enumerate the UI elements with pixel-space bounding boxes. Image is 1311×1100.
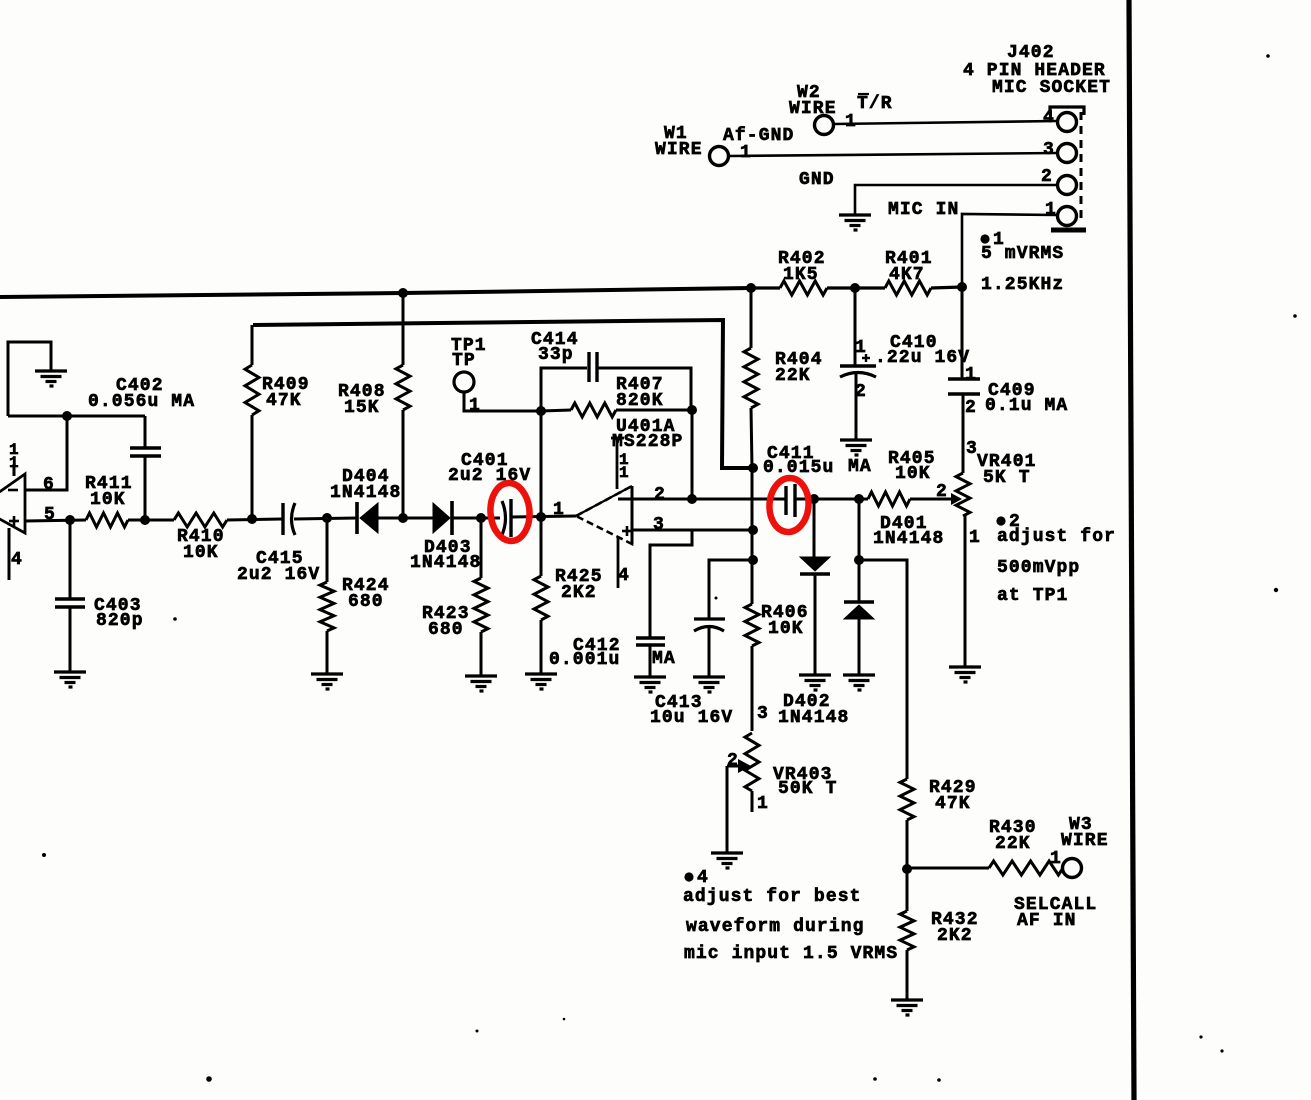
svg-text:2: 2 — [965, 398, 977, 418]
wire R404 lower lead — [751, 408, 752, 468]
wire D401 lower lead — [858, 560, 861, 675]
label 0.056u MA — [88, 392, 195, 412]
label 1N4148 D402 — [778, 708, 849, 728]
wire VR403 wiper to ground — [726, 766, 729, 852]
label 0.001u — [549, 650, 620, 670]
op-amp U401A body — [576, 486, 632, 544]
svg-text:1: 1 — [469, 396, 481, 416]
wire C402 upper lead — [144, 416, 147, 448]
pin label W2-1 — [845, 112, 857, 132]
label R410 — [177, 527, 225, 547]
label WIRE W1 — [655, 140, 703, 160]
wire C413 upper lead — [709, 560, 753, 619]
wire R408 upper lead — [402, 293, 405, 365]
diode D402 — [800, 557, 830, 574]
op-amp U401A pin8 mark — [619, 451, 630, 482]
svg-text:3: 3 — [1043, 140, 1055, 160]
wire pin1 to feedback — [540, 411, 543, 517]
pot VR401 — [956, 473, 970, 516]
label R409 — [262, 375, 310, 395]
svg-text:0.056u MA: 0.056u MA — [88, 392, 195, 412]
resistor R402 — [780, 281, 827, 295]
wire R408 lower lead — [402, 410, 405, 518]
ground R432 — [891, 1000, 923, 1015]
resistor R406 — [745, 604, 759, 646]
svg-text:1: 1 — [553, 500, 565, 520]
pin label U401A-3 — [653, 515, 665, 535]
ground top-left — [35, 371, 67, 386]
label R430 — [989, 818, 1037, 838]
wire W1 to pin3 — [729, 153, 1057, 156]
node C402-R410 junction — [140, 515, 150, 525]
pin label VR401-2 — [936, 482, 948, 502]
label C401 — [461, 451, 509, 471]
svg-text:47K: 47K — [935, 794, 971, 814]
svg-text:4: 4 — [618, 566, 630, 586]
svg-text:10u 16V: 10u 16V — [650, 708, 733, 728]
label R401 — [885, 249, 933, 269]
capacitor C410 — [840, 366, 876, 377]
label R402 — [778, 249, 826, 269]
wire R409 lower lead — [251, 415, 254, 519]
label SELCALL — [1014, 895, 1097, 915]
connector J402 bracket top — [1050, 107, 1084, 115]
terminal W1 circle — [710, 147, 729, 166]
label WIRE W3 — [1061, 831, 1109, 851]
node D402 junction — [809, 494, 819, 504]
svg-text:5: 5 — [44, 505, 56, 525]
wire C414 right branch — [597, 368, 691, 410]
op-amp U401B body — [0, 474, 25, 533]
svg-text:10K: 10K — [90, 490, 126, 510]
label C414 — [531, 330, 579, 350]
capacitor C413 — [694, 619, 725, 631]
svg-text:500mVpp: 500mVpp — [997, 558, 1080, 578]
connector J402 pin4 circle — [1058, 113, 1077, 132]
svg-text:10K: 10K — [183, 543, 219, 563]
svg-text:2: 2 — [1009, 512, 1021, 532]
op-amp U401A pin4 stub — [617, 538, 620, 588]
resistor R424 — [320, 582, 334, 631]
label 10u 16V — [650, 708, 733, 728]
terminal W3 circle — [1063, 859, 1082, 878]
label 2K2 R432 — [937, 926, 973, 946]
wire C412 branch — [650, 531, 692, 638]
diode D404 — [357, 502, 378, 534]
label U401A — [616, 417, 676, 437]
label GND — [799, 170, 835, 190]
label 1.25KHz — [981, 275, 1064, 295]
wire pin6 top branch — [8, 415, 145, 418]
svg-text:1: 1 — [965, 365, 977, 385]
resistor R404 — [744, 348, 758, 408]
wire C415 to D404 — [294, 518, 357, 519]
label VR401 — [977, 452, 1037, 472]
node rail-MICIN junction — [957, 282, 967, 292]
node R423 junction — [476, 513, 486, 523]
wire R405 to VR401 wiper — [910, 498, 941, 501]
label .22u 16V — [875, 348, 970, 368]
svg-text:MA: MA — [848, 457, 872, 477]
svg-text:680: 680 — [428, 620, 464, 640]
svg-text:MIC IN: MIC IN — [888, 200, 959, 220]
node pin1 junction — [536, 512, 546, 522]
wire mid vertical — [751, 468, 754, 530]
label 50K T — [778, 779, 838, 799]
capacitor C402 — [130, 448, 161, 456]
wire C409 lower lead — [962, 394, 965, 473]
pin label W3-1 — [1050, 849, 1062, 869]
pin label U401B-5 — [44, 505, 56, 525]
svg-text:22K: 22K — [775, 366, 811, 386]
label 2u2 16V C401 — [448, 466, 531, 486]
svg-text:adjust for best: adjust for best — [683, 887, 862, 907]
label R429 — [929, 778, 977, 798]
label D401 — [880, 514, 928, 534]
svg-text:2K2: 2K2 — [937, 926, 973, 946]
wire feedback to pin2 — [691, 410, 694, 499]
svg-text:TP: TP — [452, 351, 476, 371]
wire rail R401 right segment — [931, 287, 962, 288]
node rail-R408 junction — [398, 288, 408, 298]
resistor R409 — [245, 365, 259, 415]
label T/R — [857, 94, 893, 114]
label 820K — [616, 391, 664, 411]
wire R406 upper lead — [751, 560, 754, 604]
wire TP1 stem — [464, 392, 541, 411]
label C403 — [94, 596, 142, 616]
svg-text:GND: GND — [799, 170, 835, 190]
label WIRE W2 — [789, 99, 837, 119]
label 1N4148 D401 — [873, 529, 944, 549]
svg-text:WIRE: WIRE — [789, 99, 837, 119]
wire W2 to pin4 — [834, 121, 1057, 124]
label 47K R429 — [935, 794, 971, 814]
label C415 — [256, 549, 304, 569]
pin label C409-2 — [965, 398, 977, 418]
svg-text:1: 1 — [855, 338, 867, 358]
svg-text:2: 2 — [727, 751, 739, 771]
label D403 — [424, 538, 472, 558]
label 10K R406 — [768, 619, 804, 639]
svg-text:2: 2 — [936, 482, 948, 502]
wire VR401 lower lead — [964, 516, 967, 667]
test point TP1 circle — [454, 372, 474, 392]
wire rail R402-R401 segment — [827, 286, 885, 289]
wire C403 upper lead — [69, 520, 72, 599]
pin label TP-1 — [469, 396, 481, 416]
label Af-GND — [723, 126, 794, 146]
svg-text:1: 1 — [757, 794, 769, 814]
svg-text:1.25KHz: 1.25KHz — [981, 275, 1064, 295]
resistor R425 — [534, 576, 548, 620]
connector J402 pin2 circle — [1058, 176, 1077, 195]
svg-text:2: 2 — [855, 382, 867, 402]
label 5K T — [983, 468, 1031, 488]
svg-text:3: 3 — [653, 515, 665, 535]
pin label U401A-4 — [618, 566, 630, 586]
ground R424 — [311, 674, 343, 689]
label T/R overline — [858, 93, 869, 95]
wire op-amp pin2 line — [618, 498, 786, 501]
wire R424 upper lead — [326, 518, 329, 582]
svg-text:WIRE: WIRE — [1061, 831, 1109, 851]
svg-text:2u2 16V: 2u2 16V — [237, 565, 320, 585]
svg-text:at TP1: at TP1 — [997, 586, 1068, 606]
pot VR401 wiper arrow — [941, 493, 962, 505]
op-amp U401B pin4 stub — [8, 528, 11, 580]
svg-text:5K T: 5K T — [983, 468, 1031, 488]
node pin3 junction — [748, 525, 758, 535]
ground C413 — [693, 677, 725, 692]
label 1N4148 D404 — [330, 483, 401, 503]
ground connector GND — [839, 215, 871, 230]
wire R432 lower lead — [906, 950, 909, 1000]
wire branch to R429 — [859, 560, 907, 779]
wire rail R402 left segment — [751, 286, 780, 289]
ground C410 — [840, 440, 872, 455]
label MA C411 — [848, 457, 872, 477]
op-amp U401B minus — [8, 489, 18, 492]
resistor R410 — [174, 513, 227, 527]
label adjust for best — [683, 887, 862, 907]
svg-text:1: 1 — [9, 454, 20, 472]
pin label VR403-2 — [727, 751, 739, 771]
svg-text:1: 1 — [969, 528, 981, 548]
label VR403 — [773, 765, 833, 785]
svg-text:820p: 820p — [96, 611, 144, 631]
svg-text:Af-GND: Af-GND — [723, 126, 794, 146]
node D401 junction — [854, 494, 864, 504]
svg-text:0.015u: 0.015u — [763, 458, 834, 478]
ground D401 — [843, 675, 875, 690]
pin label C409-3 — [966, 439, 978, 459]
diode D401 — [844, 602, 874, 619]
svg-text:22K: 22K — [995, 834, 1031, 854]
svg-text:6: 6 — [43, 475, 55, 495]
wire R430 left lead — [907, 867, 989, 870]
svg-text:33p: 33p — [538, 345, 574, 365]
wire R424 lower lead — [326, 631, 329, 674]
svg-text:10K: 10K — [895, 464, 931, 484]
label 500mVpp — [997, 558, 1080, 578]
wire C409 upper lead — [961, 287, 964, 379]
pin label U401A-1 — [553, 500, 565, 520]
ground VR401 — [949, 667, 981, 682]
label R404 — [775, 350, 823, 370]
resistor R429 — [900, 779, 914, 820]
wire C410 upper lead — [854, 288, 857, 366]
svg-text:2: 2 — [654, 485, 666, 505]
capacitor C412 — [636, 638, 665, 645]
label 22K — [775, 366, 811, 386]
node feedback right junction — [687, 405, 697, 415]
pin label W1-1 — [740, 143, 752, 163]
wire R429 lower lead — [906, 820, 909, 869]
svg-text:15K: 15K — [344, 398, 380, 418]
wire op-amp pin3 line — [632, 529, 753, 532]
svg-text:1: 1 — [619, 464, 630, 482]
node C413 junction — [748, 555, 758, 565]
node upper-loop junction — [748, 463, 758, 473]
label C413 — [655, 693, 703, 713]
capacitor C409 — [948, 379, 980, 394]
svg-text:1: 1 — [1050, 849, 1062, 869]
label waveform during — [686, 917, 865, 937]
node C403 junction — [65, 515, 75, 525]
svg-text:MA: MA — [652, 649, 676, 669]
label TP1 — [451, 336, 487, 356]
note #2 marker — [996, 512, 1021, 532]
label R406 — [761, 603, 809, 623]
svg-text:1N4148: 1N4148 — [410, 553, 481, 573]
wire R423 lower lead — [480, 632, 483, 676]
wire R407 right lead — [616, 409, 692, 412]
label R407 — [616, 375, 664, 395]
label R408 — [338, 382, 386, 402]
label 2K2 R425 — [561, 583, 597, 603]
pin label 4 — [1043, 108, 1055, 128]
pin label 2 — [1041, 167, 1053, 187]
label C412 — [573, 636, 621, 656]
svg-text:1: 1 — [1045, 200, 1057, 220]
ground C412 — [634, 677, 666, 692]
svg-text:1N4148: 1N4148 — [330, 483, 401, 503]
wire MIC IN to pin1 — [962, 214, 1057, 287]
label AF IN — [1017, 911, 1077, 931]
capacitor C411 — [786, 484, 795, 517]
wire C412 lower lead — [649, 645, 652, 677]
label MIC SOCKET — [992, 78, 1111, 98]
ground C403 — [54, 672, 86, 687]
label D404 — [342, 467, 390, 487]
svg-text:AF IN: AF IN — [1017, 911, 1077, 931]
marker red circle around C401 — [489, 482, 532, 543]
wire C410 lower lead — [855, 374, 858, 440]
svg-text:1: 1 — [845, 112, 857, 132]
label 4K7 — [889, 265, 925, 285]
label 10K R411 — [90, 490, 126, 510]
node R408 junction — [398, 513, 408, 523]
label R411 — [85, 474, 133, 494]
label 0.1u MA — [985, 396, 1068, 416]
label 820p — [96, 611, 144, 631]
label C409 — [988, 381, 1036, 401]
label R423 — [422, 604, 470, 624]
label 47K R409 — [266, 391, 302, 411]
svg-text:2K2: 2K2 — [561, 583, 597, 603]
op-amp U401B pin8 mark — [9, 441, 20, 476]
label 2u2 16V C415 — [237, 565, 320, 585]
node R429 branch junction — [854, 555, 864, 565]
svg-text:680: 680 — [348, 592, 384, 612]
pin label C410-1 — [855, 338, 867, 358]
wire R423 upper lead — [480, 518, 483, 578]
wire R425 lower lead — [540, 620, 543, 674]
diode D403 — [433, 501, 452, 535]
ground D402 — [799, 675, 831, 690]
label W2 — [797, 83, 821, 103]
wire R406 lower lead — [751, 646, 754, 731]
svg-text:1: 1 — [740, 143, 752, 163]
svg-text:47K: 47K — [266, 391, 302, 411]
ground R425 — [525, 674, 557, 689]
op-amp U401B plus — [9, 516, 19, 526]
resistor R405 — [868, 492, 910, 506]
svg-text:0.001u: 0.001u — [549, 650, 620, 670]
wire D402 lower lead — [814, 574, 817, 675]
op-amp U401B pin6 stub — [25, 416, 67, 490]
pin label VR403-1 — [757, 794, 769, 814]
resistor R401 — [885, 281, 931, 295]
svg-text:T/R: T/R — [857, 94, 893, 114]
wire R411 to C402 node — [128, 519, 174, 522]
label MIC IN — [888, 200, 959, 220]
label 33p — [538, 345, 574, 365]
ground VR403 wiper — [711, 853, 743, 868]
resistor R408 — [396, 365, 410, 410]
wire R425 upper lead — [540, 517, 543, 576]
svg-text:2u2 16V: 2u2 16V — [448, 466, 531, 486]
pot VR403 wiper arrow — [727, 759, 751, 773]
marker red circle around C411 — [768, 477, 811, 534]
node R409 junction — [247, 514, 257, 524]
svg-text:0.1u MA: 0.1u MA — [985, 396, 1068, 416]
wire to top-left ground — [8, 342, 51, 416]
svg-text:J402: J402 — [1007, 43, 1055, 63]
wire main supply rail — [0, 288, 751, 297]
wire D401 upper lead — [858, 499, 861, 560]
note #4 marker — [684, 868, 709, 888]
label C410 — [890, 333, 938, 353]
pin label C409-1 — [965, 365, 977, 385]
capacitor C403 — [55, 599, 85, 607]
label 680 R424 — [348, 592, 384, 612]
label TP — [452, 351, 476, 371]
resistor R407 — [571, 403, 616, 417]
connector J402 pin1 circle — [1058, 207, 1077, 226]
pin label U401A-2 — [654, 485, 666, 505]
resistor R411 — [86, 513, 128, 527]
capacitor C401 — [502, 499, 511, 537]
pot VR403 — [745, 733, 759, 791]
label adjust for — [997, 527, 1116, 547]
node R424 junction — [322, 513, 332, 523]
label C402 — [116, 376, 164, 396]
label R425 — [555, 567, 603, 587]
svg-text:MS228P: MS228P — [612, 432, 683, 452]
label 15K — [344, 398, 380, 418]
label 1K5 — [783, 265, 819, 285]
wire C413 lower lead — [708, 628, 711, 677]
wire R410 to R409 node — [227, 519, 282, 520]
svg-text:WIRE: WIRE — [655, 140, 703, 160]
node rail-R404 junction — [746, 283, 756, 293]
svg-text:4: 4 — [1043, 108, 1055, 128]
pin label 3 — [1043, 140, 1055, 160]
label R424 — [342, 576, 390, 596]
wire R409 upper lead — [251, 325, 254, 365]
svg-text:1N4148: 1N4148 — [778, 708, 849, 728]
pin label U401B-6 — [43, 475, 55, 495]
svg-text:MIC SOCKET: MIC SOCKET — [992, 78, 1111, 98]
svg-text:50K T: 50K T — [778, 779, 838, 799]
svg-text:4: 4 — [11, 550, 23, 570]
connector J402 pin3 circle — [1058, 144, 1077, 163]
resistor R432 — [900, 911, 914, 950]
wire C414 left branch — [541, 368, 587, 411]
label MS228P — [612, 432, 683, 452]
